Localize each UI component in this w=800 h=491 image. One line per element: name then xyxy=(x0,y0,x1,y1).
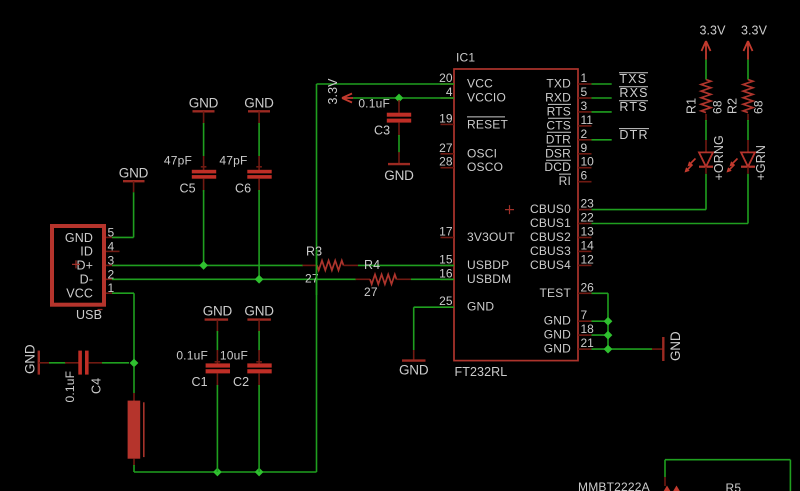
pin 21 GND xyxy=(578,336,594,350)
wire C1 to rail xyxy=(216,385,218,472)
wire C6 to D- xyxy=(258,190,260,279)
svg-text:10uF: 10uF xyxy=(220,348,248,362)
wire R1 to LED1 xyxy=(705,120,707,140)
svg-text:GND: GND xyxy=(244,95,274,110)
svg-text:C3: C3 xyxy=(374,124,390,138)
USB origin cross xyxy=(72,260,80,268)
svg-text:TXD: TXD xyxy=(546,77,571,91)
wire junction down to ferrite bead xyxy=(133,367,135,393)
svg-text:0.1uF: 0.1uF xyxy=(176,348,208,362)
ground above USB pin 5 xyxy=(119,166,149,193)
wire pin 26 TEST to GND bus xyxy=(592,293,609,349)
node junction C5 / D+ xyxy=(199,261,208,270)
svg-text:+ORNG: +ORNG xyxy=(712,135,726,180)
wire pin 7 to bus xyxy=(592,320,609,322)
svg-text:9: 9 xyxy=(581,141,588,155)
svg-text:GND: GND xyxy=(544,342,571,356)
wire R4 to IC pin 16 xyxy=(411,278,454,280)
IC1 left pin labels xyxy=(467,77,515,314)
svg-text:+GRN: +GRN xyxy=(754,145,768,180)
svg-text:GND: GND xyxy=(119,166,149,181)
svg-text:68: 68 xyxy=(711,100,725,114)
svg-text:23: 23 xyxy=(581,197,595,211)
svg-text:CBUS4: CBUS4 xyxy=(530,258,571,272)
node junction pin21 xyxy=(604,345,613,354)
capacitor C1 0.1uF xyxy=(176,348,230,389)
svg-text:USBDP: USBDP xyxy=(467,258,509,272)
svg-text:VCCIO: VCCIO xyxy=(467,91,506,105)
wire overlays on IC left stubs xyxy=(441,84,455,307)
net label TXS xyxy=(619,72,648,86)
pin 18 GND xyxy=(578,322,594,336)
svg-text:C2: C2 xyxy=(233,375,249,389)
svg-text:12: 12 xyxy=(581,252,595,266)
ground right of pin 21 xyxy=(652,331,683,361)
USB connector J1 xyxy=(52,226,104,322)
svg-text:CBUS2: CBUS2 xyxy=(530,230,571,244)
svg-text:VCC: VCC xyxy=(66,287,93,301)
wire pin 18 to bus xyxy=(592,334,609,336)
svg-text:19: 19 xyxy=(439,111,453,125)
svg-text:TEST: TEST xyxy=(540,286,572,300)
svg-text:DCD: DCD xyxy=(544,160,571,174)
capacitor C3 0.1uF xyxy=(358,97,411,138)
pin 14 CBUS3 xyxy=(578,238,594,252)
wire USB pin5 to GND xyxy=(112,192,134,237)
USB pin 4 xyxy=(106,239,120,253)
svg-text:6: 6 xyxy=(581,169,588,183)
wire GND to C2 xyxy=(258,331,260,351)
svg-text:3.3V: 3.3V xyxy=(699,23,726,37)
USB pin 1 xyxy=(106,281,120,295)
wire C4 to junction xyxy=(102,362,129,364)
wire VCC rail up to IC pin 20 xyxy=(317,84,455,472)
svg-text:C6: C6 xyxy=(235,182,251,196)
svg-text:GND: GND xyxy=(203,303,233,318)
svg-text:RESET: RESET xyxy=(467,117,508,131)
svg-text:27: 27 xyxy=(364,285,378,299)
svg-text:D-: D- xyxy=(80,273,93,287)
svg-text:18: 18 xyxy=(581,322,595,336)
wire C2 to rail xyxy=(258,385,260,472)
wire bead bottom to VCC rail xyxy=(134,465,317,472)
svg-text:13: 13 xyxy=(581,225,595,239)
pin 28 OSCO xyxy=(439,155,454,169)
svg-text:DSR: DSR xyxy=(545,146,571,160)
svg-text:USBDM: USBDM xyxy=(467,272,511,286)
svg-text:GND: GND xyxy=(668,331,683,361)
pin 4 VCCIO xyxy=(441,85,455,99)
capacitor C4 0.1uF xyxy=(63,351,104,403)
svg-text:16: 16 xyxy=(439,266,453,280)
net label RXS xyxy=(619,86,649,100)
wire pin 25 GND xyxy=(414,307,441,350)
svg-text:GND: GND xyxy=(544,314,571,328)
svg-text:68: 68 xyxy=(752,100,766,114)
svg-text:21: 21 xyxy=(581,336,595,350)
pin 15 USBDP xyxy=(439,252,454,266)
svg-text:R1: R1 xyxy=(685,98,699,114)
USB pin 3 xyxy=(106,253,120,267)
pin 5 RXD xyxy=(578,85,592,99)
IC1 inverted-pin overlines RTS CTS DTR DSR DCD RI xyxy=(546,104,571,174)
ground left of C4 xyxy=(23,344,51,374)
resistor R2 68 xyxy=(726,80,766,121)
supply 3.3V arrow at VCCIO xyxy=(326,78,353,105)
USB pin 2 xyxy=(106,267,120,281)
ground below pin 25 xyxy=(399,350,429,377)
capacitor C6 47pF xyxy=(219,153,271,195)
capacitor C5 47pF xyxy=(164,153,216,195)
svg-text:D+: D+ xyxy=(76,259,93,273)
svg-text:CBUS3: CBUS3 xyxy=(530,244,571,258)
wire 3.3V to R2 xyxy=(747,60,749,80)
pin 12 CBUS4 xyxy=(578,252,594,266)
ground above C6 xyxy=(244,95,274,124)
resistor R3 27 xyxy=(303,244,359,285)
svg-text:VCC: VCC xyxy=(467,77,493,91)
svg-text:14: 14 xyxy=(581,238,595,252)
svg-text:RTS: RTS xyxy=(547,104,571,118)
wire GND to C6 xyxy=(258,123,260,156)
svg-text:15: 15 xyxy=(439,252,453,266)
wire pin 21 / bus to GND xyxy=(592,348,653,350)
wire pin 23 CBUS0 to LED1 xyxy=(592,174,707,210)
wire D- net USB pin2 to R4 xyxy=(112,278,356,280)
pin 23 CBUS0 xyxy=(578,197,594,211)
wire GND to C1 xyxy=(216,331,218,351)
svg-text:GND: GND xyxy=(544,328,571,342)
svg-text:7: 7 xyxy=(581,308,588,322)
wire GND to C5 xyxy=(203,123,205,156)
svg-text:RXD: RXD xyxy=(545,91,571,105)
svg-text:OSCI: OSCI xyxy=(467,146,497,160)
node junction C3 / VCCIO xyxy=(395,94,404,103)
pin 19 RESET xyxy=(439,111,454,125)
svg-text:20: 20 xyxy=(439,71,453,85)
node junction C4 / USB VCC xyxy=(130,359,139,368)
wire R3 to IC pin 15 xyxy=(358,264,454,266)
svg-text:CTS: CTS xyxy=(546,118,571,132)
LED1 ORNG xyxy=(685,135,727,180)
resistor R4 27 xyxy=(356,258,412,299)
svg-text:25: 25 xyxy=(439,294,453,308)
svg-text:CBUS0: CBUS0 xyxy=(530,202,571,216)
pin 3 RTS xyxy=(578,99,592,113)
ferrite bead L1 xyxy=(128,393,144,466)
svg-text:RI: RI xyxy=(559,174,571,188)
svg-text:4: 4 xyxy=(446,85,453,99)
IC1 right pin labels xyxy=(530,77,571,356)
svg-text:0.1uF: 0.1uF xyxy=(358,97,390,111)
pin 13 CBUS2 xyxy=(578,225,594,239)
svg-text:R5: R5 xyxy=(726,481,742,491)
supply 3.3V arrow 2 xyxy=(741,23,768,59)
svg-text:DTR: DTR xyxy=(546,132,571,146)
pin 27 OSCI xyxy=(439,141,454,155)
wire C5 to D+ xyxy=(203,190,205,265)
svg-text:GND: GND xyxy=(467,300,494,314)
ground below C3 xyxy=(384,152,414,183)
wire GND to C4 xyxy=(49,362,66,364)
pin 1 TXD xyxy=(578,71,592,85)
wire pin 2 DTR xyxy=(592,139,612,141)
ground above C1 xyxy=(203,303,233,332)
op-amp IC1 FT232RL body xyxy=(454,51,578,380)
svg-text:11: 11 xyxy=(581,113,594,127)
svg-text:1: 1 xyxy=(581,71,588,85)
svg-text:OSCO: OSCO xyxy=(467,160,503,174)
svg-text:GND: GND xyxy=(23,344,38,374)
svg-text:3V3OUT: 3V3OUT xyxy=(467,230,515,244)
pin 10 DCD xyxy=(578,155,594,169)
node junction pin18 xyxy=(604,331,613,340)
svg-text:GND: GND xyxy=(399,362,429,377)
svg-text:GND: GND xyxy=(65,231,93,245)
LED2 GRN xyxy=(727,140,769,181)
svg-text:17: 17 xyxy=(439,225,453,239)
wire R2 to LED2 xyxy=(747,120,749,140)
svg-text:ID: ID xyxy=(80,245,93,259)
node junction C2 / rail xyxy=(255,468,264,477)
pin 11 CTS xyxy=(578,113,593,127)
USB name origin tick xyxy=(98,309,103,311)
net label DTR xyxy=(619,128,649,142)
IC1 RESET overline xyxy=(467,116,505,118)
net label RTS xyxy=(619,100,648,114)
pin 2 DTR xyxy=(578,127,592,141)
svg-text:RXS: RXS xyxy=(619,86,648,100)
svg-text:26: 26 xyxy=(581,280,595,294)
svg-text:4: 4 xyxy=(108,239,115,253)
supply 3.3V arrow 1 xyxy=(699,23,726,59)
svg-text:27: 27 xyxy=(439,141,453,155)
resistor R1 68 xyxy=(685,80,725,121)
node junction pin7 xyxy=(604,317,613,326)
ground above C2 xyxy=(244,303,274,332)
pin 6 RI xyxy=(578,169,592,183)
wire pin 1 TXD xyxy=(592,83,612,85)
wire 3.3V to R1 xyxy=(705,60,707,80)
node junction C1 / rail xyxy=(213,468,222,477)
svg-text:DTR: DTR xyxy=(619,128,648,142)
IC1 origin cross xyxy=(505,205,514,214)
ground above C5 xyxy=(189,95,219,124)
capacitor C2 10uF xyxy=(220,348,272,389)
wire rail overlay at R3 crossing xyxy=(316,250,318,295)
pin 26 TEST xyxy=(578,280,594,294)
svg-text:C1: C1 xyxy=(192,375,208,389)
node junction C6 / D- xyxy=(255,275,264,284)
transistor Q1 (partially visible) xyxy=(578,477,680,491)
pin 22 CBUS1 xyxy=(578,211,594,225)
svg-text:IC1: IC1 xyxy=(456,51,475,65)
svg-text:47pF: 47pF xyxy=(219,153,247,167)
svg-text:10: 10 xyxy=(581,155,595,169)
wire pin 22 CBUS1 to LED2 xyxy=(592,174,749,224)
svg-text:R2: R2 xyxy=(726,98,740,114)
wire USB pin1 to C4 junction xyxy=(112,293,134,363)
svg-text:3.3V: 3.3V xyxy=(741,23,768,37)
pin 7 GND xyxy=(578,308,592,322)
wire C3 to GND xyxy=(398,135,400,153)
svg-text:3: 3 xyxy=(581,99,588,113)
svg-text:0.1uF: 0.1uF xyxy=(63,371,77,403)
USB pin 5 xyxy=(106,225,120,239)
svg-text:GND: GND xyxy=(384,168,414,183)
svg-text:GND: GND xyxy=(244,303,274,318)
svg-text:22: 22 xyxy=(581,211,595,225)
wire pin 3 RTS xyxy=(592,111,612,113)
svg-text:2: 2 xyxy=(581,127,588,141)
pin 25 GND xyxy=(439,294,454,308)
wire transistor collector net xyxy=(665,460,790,491)
pin 20 VCC xyxy=(439,71,454,85)
wire pin 5 RXD xyxy=(592,97,612,99)
pin 17 3V3OUT xyxy=(439,225,454,239)
svg-text:R4: R4 xyxy=(364,258,380,272)
svg-text:C5: C5 xyxy=(180,182,196,196)
svg-text:GND: GND xyxy=(189,95,219,110)
svg-text:C4: C4 xyxy=(90,378,104,394)
svg-text:CBUS1: CBUS1 xyxy=(530,216,571,230)
svg-text:RTS: RTS xyxy=(619,100,647,114)
svg-text:FT232RL: FT232RL xyxy=(455,365,508,379)
svg-text:5: 5 xyxy=(581,85,588,99)
svg-text:3.3V: 3.3V xyxy=(326,78,340,105)
wire D+ net USB pin3 to R3 xyxy=(112,264,303,266)
svg-text:R3: R3 xyxy=(306,244,322,258)
svg-text:MMBT2222A: MMBT2222A xyxy=(578,480,650,491)
svg-text:47pF: 47pF xyxy=(164,153,192,167)
pin 9 DSR xyxy=(578,141,592,155)
wire 3.3V arrow to IC pin 4 xyxy=(353,97,454,99)
pin 16 USBDM xyxy=(439,266,454,280)
svg-text:28: 28 xyxy=(439,155,453,169)
svg-text:TXS: TXS xyxy=(619,72,647,86)
